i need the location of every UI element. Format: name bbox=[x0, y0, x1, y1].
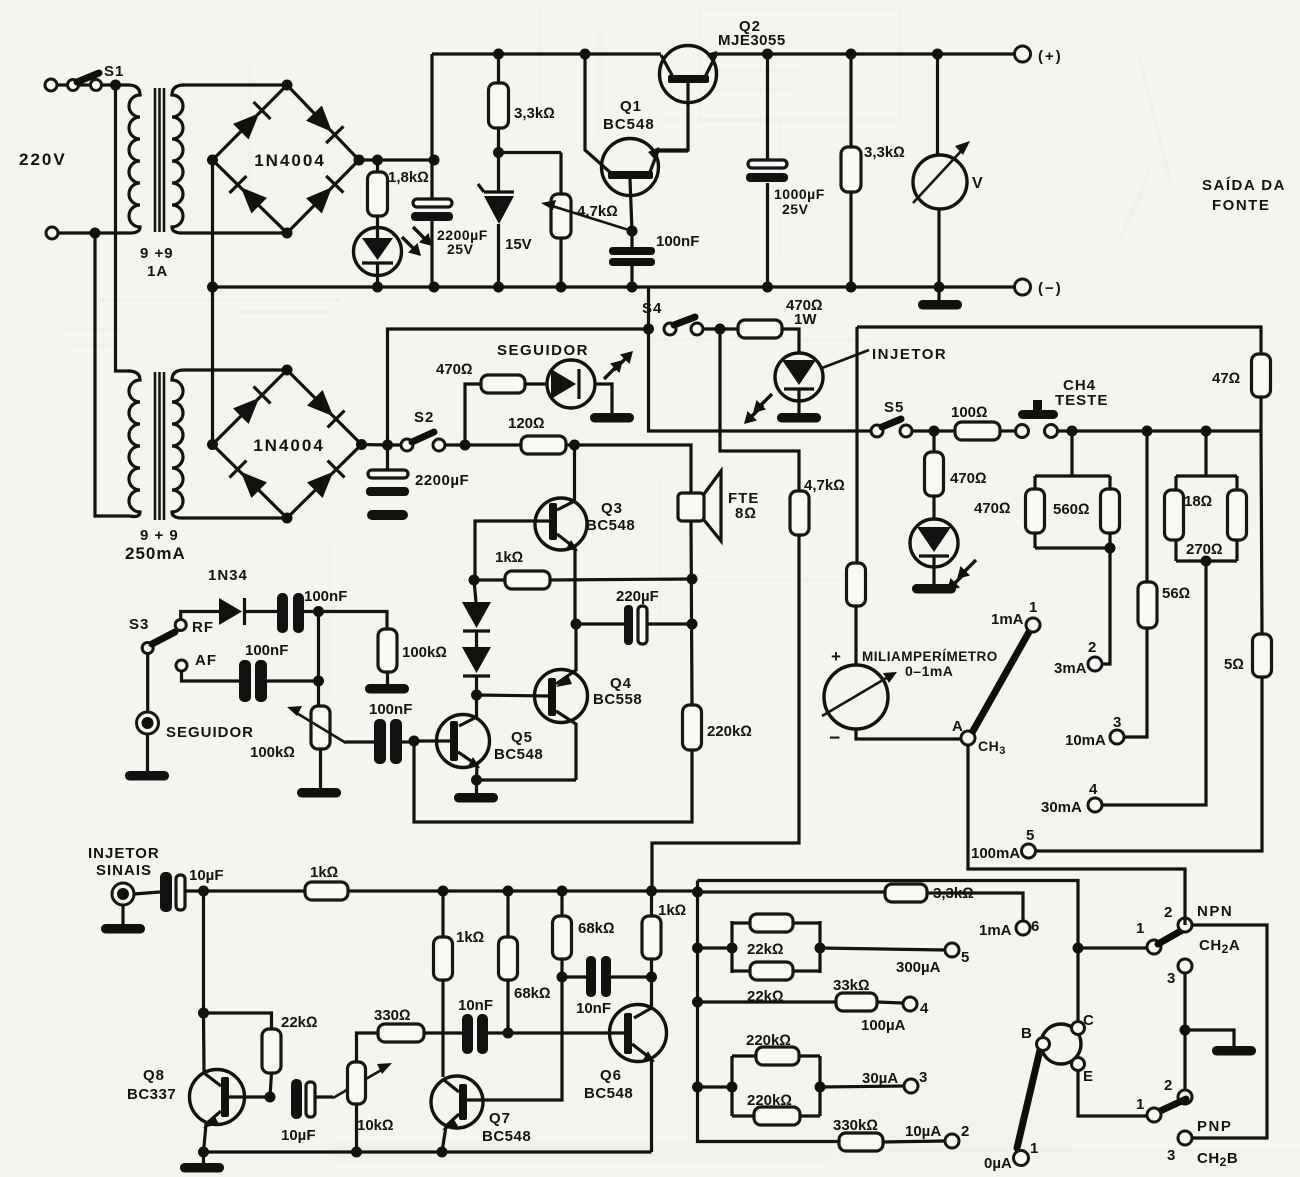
ground 100k RF bbox=[386, 672, 389, 684]
node shunt B bbox=[1142, 426, 1153, 437]
node Q8 collector bbox=[198, 1008, 209, 1019]
lever CH2A bbox=[1158, 928, 1186, 944]
svg-text:5Ω: 5Ω bbox=[1224, 656, 1244, 673]
diode B2 bottom-right bbox=[306, 460, 344, 498]
svg-text:BC548: BC548 bbox=[603, 116, 655, 133]
resistor 470R shunt bbox=[1026, 489, 1045, 533]
contact CH2A 2 NPN bbox=[1178, 918, 1192, 932]
svg-text:FONTE: FONTE bbox=[1212, 197, 1270, 214]
ground injetor rail bbox=[202, 1152, 205, 1163]
wire S4 branch riser bbox=[388, 329, 649, 445]
svg-text:2: 2 bbox=[1164, 1077, 1172, 1094]
resistor 5R chain bbox=[1261, 431, 1262, 634]
wire B2 right node to S2 bbox=[362, 443, 403, 447]
transistor Q4 BC558 bbox=[535, 670, 588, 723]
node Q6 collector bbox=[650, 959, 653, 977]
svg-text:V: V bbox=[972, 175, 983, 192]
node shunt A bbox=[1067, 426, 1078, 437]
wire injetor node down to 4,7k bbox=[720, 329, 799, 491]
capacitor 2200uF filter2 bbox=[386, 445, 389, 470]
svg-text:INJETOR: INJETOR bbox=[88, 845, 160, 862]
wire to 10uA contact bbox=[883, 1141, 945, 1142]
LED1 bbox=[354, 228, 402, 276]
resistor 68k first bbox=[506, 891, 509, 937]
wire to 30mA contact bbox=[1102, 561, 1206, 805]
svg-text:CH2A: CH2A bbox=[1199, 937, 1240, 956]
wire NPN2 to PNP3 bracket bbox=[1192, 925, 1267, 1138]
resistor 270R bbox=[1228, 490, 1247, 540]
svg-text:B: B bbox=[1021, 1025, 1032, 1042]
svg-text:SAÍDA DA: SAÍDA DA bbox=[1202, 177, 1286, 194]
svg-text:30µA: 30µA bbox=[862, 1070, 898, 1087]
svg-text:1kΩ: 1kΩ bbox=[310, 864, 338, 881]
transistor Q5 BC548 bbox=[459, 695, 477, 726]
resistor 22k a bbox=[750, 914, 793, 932]
wire speaker bottom bbox=[691, 521, 692, 705]
wire pot bottom to rail bbox=[355, 1104, 358, 1152]
svg-text:0µA: 0µA bbox=[984, 1155, 1012, 1172]
svg-text:PNP: PNP bbox=[1197, 1118, 1232, 1135]
bridge B2 node bottom bbox=[282, 513, 293, 524]
wire B1 right node out bbox=[359, 158, 434, 161]
svg-text:1kΩ: 1kΩ bbox=[456, 929, 484, 946]
svg-text:470Ω: 470Ω bbox=[950, 470, 987, 487]
jack injetor sinais bbox=[112, 883, 134, 905]
svg-text:A: A bbox=[952, 718, 963, 735]
wire S3 pivot to jack bbox=[146, 653, 149, 713]
wire to ground tap bbox=[1185, 1030, 1234, 1046]
node CH2A in bbox=[1073, 943, 1084, 954]
transformer T1 primary coil bbox=[128, 85, 140, 233]
contact 0uA 1 bbox=[1014, 1151, 1029, 1166]
svg-text:22kΩ: 22kΩ bbox=[281, 1014, 318, 1031]
shunt pair 18R/270R bracket bbox=[1176, 431, 1237, 561]
wire pot top to 330R bbox=[357, 1033, 379, 1062]
svg-text:100nF: 100nF bbox=[369, 701, 412, 718]
svg-text:250mA: 250mA bbox=[125, 544, 186, 563]
svg-text:560Ω: 560Ω bbox=[1053, 501, 1090, 518]
svg-text:S5: S5 bbox=[884, 399, 904, 416]
svg-text:Q4: Q4 bbox=[610, 675, 632, 692]
bridge B1 node left bbox=[207, 155, 218, 166]
svg-text:4,7kΩ: 4,7kΩ bbox=[577, 203, 618, 220]
svg-text:MILIAMPERÍMETRO: MILIAMPERÍMETRO bbox=[862, 649, 998, 664]
svg-text:BC337: BC337 bbox=[127, 1086, 176, 1103]
wire top box bbox=[857, 327, 1261, 354]
node AF junction bbox=[313, 676, 324, 687]
svg-text:10mA: 10mA bbox=[1065, 732, 1106, 749]
svg-text:Q5: Q5 bbox=[511, 729, 533, 746]
wire to 100mA contact bbox=[1036, 677, 1262, 851]
node 3mA tap bbox=[1105, 543, 1116, 554]
wire S4 feed from rail bbox=[647, 287, 650, 329]
node shunt C bbox=[1201, 426, 1212, 437]
svg-text:270Ω: 270Ω bbox=[1186, 541, 1223, 558]
potentiometer 4,7k bbox=[559, 153, 562, 288]
svg-text:10nF: 10nF bbox=[576, 1000, 611, 1017]
resistor 220k b bbox=[754, 1107, 800, 1125]
svg-text:25V: 25V bbox=[447, 241, 474, 257]
resistor 3,3k bbox=[497, 54, 500, 153]
LED seguidor light arrows bbox=[614, 351, 633, 370]
node Q4 base bbox=[471, 690, 482, 701]
bottom rail injetor bbox=[204, 1150, 652, 1153]
node 30mA tap bbox=[1201, 556, 1212, 567]
lever CH2B bbox=[1158, 1099, 1186, 1112]
wire zener node to pot top bbox=[499, 151, 562, 154]
diode B2 bottom-left bbox=[229, 460, 267, 498]
wire riser to 470R seguidor bbox=[465, 384, 481, 445]
LED1 light arrows bbox=[402, 237, 421, 256]
bridge B1 node right bbox=[354, 155, 365, 166]
svg-text:1mA: 1mA bbox=[979, 922, 1012, 939]
svg-text:+: + bbox=[831, 647, 841, 666]
capacitor 100nF AF bbox=[239, 660, 251, 702]
svg-text:10kΩ: 10kΩ bbox=[357, 1117, 394, 1134]
wire T1 secondary top to bridge bbox=[182, 83, 287, 86]
capacitor 10uF Q8 bbox=[291, 1079, 302, 1119]
svg-text:470Ω: 470Ω bbox=[974, 500, 1011, 517]
transformer T2 core bbox=[155, 372, 164, 520]
wire LED seguidor to ground bbox=[595, 384, 612, 413]
svg-text:25V: 25V bbox=[782, 201, 809, 217]
svg-text:Q8: Q8 bbox=[143, 1067, 165, 1084]
svg-text:10µF: 10µF bbox=[189, 867, 224, 884]
terminal 220V bottom bbox=[46, 227, 58, 239]
jack SEGUIDOR bbox=[137, 712, 159, 734]
svg-text:1kΩ: 1kΩ bbox=[658, 902, 686, 919]
svg-text:3,3kΩ: 3,3kΩ bbox=[514, 105, 555, 122]
rail minus bbox=[213, 285, 1015, 288]
svg-text:8Ω: 8Ω bbox=[735, 505, 757, 522]
capacitor 220uF bbox=[576, 622, 692, 625]
bridge B2 node top bbox=[282, 365, 293, 376]
contact CH2B 2 bbox=[1178, 1090, 1192, 1104]
svg-text:BC548: BC548 bbox=[584, 1085, 633, 1102]
svg-text:Q6: Q6 bbox=[600, 1067, 622, 1084]
svg-text:1W: 1W bbox=[794, 311, 817, 328]
wire CH2A contact1 bbox=[1078, 946, 1147, 949]
wire S4 to 470R 1W bbox=[703, 327, 738, 330]
transistor Q2 MJE3055 bbox=[660, 46, 717, 103]
node 2200uF top bbox=[429, 155, 440, 166]
wire long S4 to S5 bbox=[649, 329, 871, 431]
svg-text:3: 3 bbox=[1113, 714, 1121, 731]
resistor 330R bbox=[378, 1024, 424, 1042]
svg-text:3: 3 bbox=[1167, 970, 1175, 987]
resistor 120R bbox=[521, 436, 566, 454]
svg-text:2: 2 bbox=[961, 1123, 969, 1140]
svg-text:1: 1 bbox=[1136, 1096, 1144, 1113]
capacitor 10nF Q6 fb bbox=[562, 975, 652, 978]
contact CH2B 3 PNP bbox=[1178, 1131, 1192, 1145]
wire CH4 to shunt bus bbox=[1058, 429, 1261, 432]
svg-text:2: 2 bbox=[1164, 904, 1172, 921]
svg-text:BC548: BC548 bbox=[586, 517, 635, 534]
contact AF bbox=[176, 660, 187, 671]
wire 1k to Q7 collector bbox=[441, 980, 444, 1077]
wire 220V bottom bbox=[58, 231, 130, 234]
ground pot 100k bbox=[319, 749, 322, 788]
wire 330R to 10nF bbox=[424, 1031, 462, 1034]
svg-text:E: E bbox=[1083, 1068, 1093, 1085]
wire 22k to base node bbox=[270, 1073, 272, 1097]
svg-text:S2: S2 bbox=[414, 409, 434, 426]
wire T1 secondary bottom to bridge bbox=[180, 231, 287, 234]
node Q5 emitter bbox=[471, 775, 482, 786]
contact 30uA 3 bbox=[904, 1079, 918, 1093]
wire Q8 collector riser bbox=[202, 891, 205, 1013]
transistor Q8 BC337 bbox=[190, 1070, 245, 1125]
transformer T1 core bbox=[155, 88, 164, 232]
potentiometer 100k bbox=[311, 706, 330, 749]
svg-text:1N4004: 1N4004 bbox=[254, 151, 326, 170]
node 220uF left bbox=[571, 619, 582, 630]
wire top rail left drop bbox=[430, 54, 433, 199]
wire 1N34 to cap bbox=[245, 610, 278, 613]
resistor 3,3k base bbox=[698, 892, 1024, 921]
milliammeter bbox=[824, 665, 888, 729]
LED teste bbox=[932, 496, 935, 519]
resistor 470R 1W bbox=[738, 320, 782, 338]
transistor Q6 BC548 bbox=[634, 977, 652, 1018]
svg-text:330Ω: 330Ω bbox=[374, 1007, 411, 1024]
contact A CH3 bbox=[961, 731, 975, 745]
svg-text:Q3: Q3 bbox=[601, 500, 623, 517]
diode B2 top-right bbox=[306, 389, 344, 427]
LED seguidor bbox=[547, 360, 595, 408]
contact CH2A 1 bbox=[1147, 940, 1161, 954]
bridge B1 node bottom bbox=[282, 228, 293, 239]
bridge rectifier B2 diamond bbox=[213, 370, 362, 518]
contact 300uA 5 bbox=[945, 943, 959, 957]
contact E bbox=[1072, 1058, 1085, 1071]
resistor 47R bbox=[1252, 354, 1271, 397]
top rail plus bbox=[432, 52, 1014, 55]
node zener top bbox=[493, 147, 504, 158]
contact 30mA 4 bbox=[1088, 798, 1102, 812]
diode B1 bottom-right bbox=[305, 176, 343, 214]
wire CH2A3 to PNP2 bbox=[1183, 973, 1186, 1090]
svg-text:C: C bbox=[1083, 1012, 1094, 1029]
transistor Q1 BC548 bbox=[585, 54, 612, 174]
node 1.8k top bbox=[372, 155, 383, 166]
svg-text:100mA: 100mA bbox=[971, 845, 1020, 862]
capacitor 1000uF 25V bbox=[766, 54, 769, 287]
svg-text:15V: 15V bbox=[505, 236, 532, 253]
svg-text:SINAIS: SINAIS bbox=[96, 862, 152, 879]
wire B1 left node down to B2 bbox=[211, 160, 214, 445]
resistor 22k b bbox=[750, 962, 793, 980]
lever CH2 B to 0uA bbox=[1017, 1050, 1040, 1148]
svg-text:3: 3 bbox=[919, 1069, 927, 1086]
svg-text:1N34: 1N34 bbox=[208, 567, 248, 584]
svg-text:Q1: Q1 bbox=[620, 98, 642, 115]
svg-text:33kΩ: 33kΩ bbox=[833, 977, 870, 994]
svg-text:TESTE: TESTE bbox=[1055, 392, 1108, 409]
contact C bbox=[1072, 1022, 1085, 1035]
capacitor 100nF RF bbox=[277, 593, 288, 633]
node 220V bottom bbox=[90, 228, 101, 239]
resistor 18R bbox=[1165, 490, 1184, 540]
svg-text:S4: S4 bbox=[642, 300, 662, 317]
wire Q4 base bbox=[477, 695, 549, 696]
wire NPN2 riser bbox=[1183, 918, 1186, 925]
wire cap AF to node bbox=[267, 679, 319, 682]
resistor 100k RF bbox=[378, 629, 397, 672]
resistor 4,7k amp bbox=[790, 491, 809, 535]
svg-text:3,3kΩ: 3,3kΩ bbox=[864, 144, 905, 161]
resistor meter series bbox=[847, 563, 866, 606]
svg-text:3mA: 3mA bbox=[1054, 660, 1087, 677]
svg-text:2200µF: 2200µF bbox=[415, 472, 469, 489]
svg-text:9 + 9: 9 + 9 bbox=[140, 527, 179, 544]
zener 15V bbox=[497, 153, 500, 288]
wire T2 secondary top to bridge2 bbox=[184, 368, 287, 371]
wire meter column bbox=[855, 327, 858, 563]
contact CH2B 1 bbox=[1147, 1108, 1161, 1122]
svg-text:S3: S3 bbox=[129, 616, 149, 633]
svg-text:68kΩ: 68kΩ bbox=[578, 920, 615, 937]
resistor 1k input bbox=[305, 882, 348, 900]
svg-text:BC558: BC558 bbox=[593, 691, 642, 708]
resistor 1,8k bbox=[376, 160, 379, 228]
bridge B2 node right bbox=[356, 439, 367, 450]
contact 1mA 1 bbox=[1026, 618, 1040, 632]
transformer T2 primary coil bbox=[128, 371, 140, 517]
wire 470R to LED injetor bbox=[782, 329, 799, 354]
diode B1 top-right bbox=[305, 105, 343, 143]
svg-text:4: 4 bbox=[1089, 781, 1098, 798]
svg-text:68kΩ: 68kΩ bbox=[514, 985, 551, 1002]
pushbutton CH4 TESTE bbox=[1000, 429, 1015, 432]
wire to 3mA contact bbox=[1102, 548, 1110, 664]
contact 100mA 5 bbox=[1022, 844, 1036, 858]
wire base network column bbox=[698, 881, 840, 1142]
resistor 22k bbox=[262, 1029, 281, 1073]
transformer T2 secondary coil bbox=[172, 370, 184, 518]
Q1 base node bbox=[630, 179, 632, 247]
switch S1 bbox=[68, 80, 79, 91]
svg-text:−: − bbox=[829, 728, 840, 749]
svg-text:1N4004: 1N4004 bbox=[253, 436, 325, 455]
svg-text:AF: AF bbox=[195, 652, 217, 669]
svg-text:470Ω: 470Ω bbox=[436, 361, 473, 378]
svg-text:1: 1 bbox=[1136, 920, 1144, 937]
svg-text:MJE3055: MJE3055 bbox=[718, 32, 786, 49]
svg-text:CH2B: CH2B bbox=[1197, 1150, 1238, 1169]
wire node to 22k bbox=[204, 1013, 272, 1029]
svg-text:300µA: 300µA bbox=[896, 959, 941, 976]
contact 10mA 3 bbox=[1110, 730, 1124, 744]
wire cap to pot wiper bbox=[315, 1095, 333, 1098]
rail injetor top bbox=[185, 889, 698, 892]
resistor 100R bbox=[955, 422, 1000, 440]
potentiometer 10k bbox=[333, 1069, 383, 1098]
node ground tap bbox=[1180, 1025, 1191, 1036]
node Q3 collector bbox=[569, 440, 580, 451]
wire 220V top to S1 bbox=[57, 83, 128, 86]
svg-text:INJETOR: INJETOR bbox=[872, 346, 947, 363]
capacitor 2200uF 25V bbox=[413, 199, 452, 207]
transistor Q7 BC548 bbox=[431, 1076, 483, 1128]
diode 1N34 bbox=[219, 598, 242, 625]
node RF junction bbox=[313, 606, 324, 617]
wire 68k to node bbox=[506, 980, 509, 1033]
svg-text:6: 6 bbox=[1031, 918, 1039, 935]
resistor 470R seguidor bbox=[481, 375, 525, 393]
wire AF to cap bbox=[182, 671, 240, 681]
svg-text:220µF: 220µF bbox=[616, 588, 659, 605]
node injetor branch bbox=[715, 324, 726, 335]
LED injetor bbox=[775, 353, 823, 401]
wire Q3 base bbox=[475, 521, 549, 580]
switch S2 bbox=[401, 439, 413, 451]
svg-text:220V: 220V bbox=[19, 150, 67, 169]
wire 68k2 to Q7 base bbox=[467, 959, 562, 1100]
svg-text:3: 3 bbox=[1167, 1147, 1175, 1164]
svg-text:100kΩ: 100kΩ bbox=[402, 644, 447, 661]
resistor 3,3k output bbox=[849, 54, 852, 287]
svg-text:0–1mA: 0–1mA bbox=[905, 663, 953, 679]
wire S5 to 100R bbox=[912, 429, 955, 432]
diode D2 amp bbox=[475, 631, 478, 647]
svg-text:(−): (−) bbox=[1038, 280, 1063, 297]
svg-text:4,7kΩ: 4,7kΩ bbox=[804, 477, 845, 494]
diode B2 top-left bbox=[232, 386, 270, 424]
svg-text:220kΩ: 220kΩ bbox=[746, 1032, 791, 1049]
contact 3mA 2 bbox=[1088, 657, 1102, 671]
resistor 1k Q6 bbox=[650, 891, 653, 916]
svg-text:10nF: 10nF bbox=[458, 997, 493, 1014]
node base network top bbox=[692, 887, 703, 898]
bridge B1 node top bbox=[282, 80, 293, 91]
contact RF bbox=[175, 620, 186, 631]
wire to 300uA contact bbox=[820, 948, 945, 950]
LED injetor light arrows bbox=[753, 394, 772, 413]
svg-text:(+): (+) bbox=[1038, 48, 1063, 65]
svg-text:120Ω: 120Ω bbox=[508, 415, 545, 432]
wire to 10mA contact bbox=[1124, 628, 1147, 737]
svg-text:47Ω: 47Ω bbox=[1212, 370, 1240, 387]
ground LED seguidor bbox=[590, 413, 634, 423]
wire T2 secondary bottom to bridge2 bbox=[182, 516, 287, 519]
svg-text:5: 5 bbox=[961, 949, 969, 966]
ground LED injetor bbox=[777, 413, 821, 423]
svg-text:100nF: 100nF bbox=[245, 642, 288, 659]
resistor 33k bbox=[698, 1002, 904, 1003]
label INJETOR with pointer bbox=[822, 350, 869, 368]
wire to T2 primary top bbox=[116, 85, 131, 371]
transistor Q3 BC548 bbox=[557, 445, 575, 510]
svg-text:22kΩ: 22kΩ bbox=[747, 941, 784, 958]
svg-text:1A: 1A bbox=[147, 263, 168, 280]
wire 470R to LED seguidor bbox=[525, 382, 548, 385]
node 2200uF2 top bbox=[382, 440, 393, 451]
svg-text:NPN: NPN bbox=[1197, 903, 1233, 920]
resistor 1k Q7 bbox=[441, 891, 444, 937]
svg-text:1000µF: 1000µF bbox=[774, 186, 825, 202]
ground Q5 bbox=[475, 780, 478, 793]
resistor 330k bbox=[839, 1133, 883, 1151]
svg-text:RF: RF bbox=[192, 619, 214, 636]
wire RF to 1N34 bbox=[181, 612, 219, 620]
terminal minus bbox=[1015, 279, 1031, 295]
svg-text:100µA: 100µA bbox=[861, 1017, 906, 1034]
bridge B2 node left bbox=[207, 439, 218, 450]
node 470R seguidor bbox=[460, 440, 471, 451]
svg-text:2: 2 bbox=[1088, 639, 1096, 656]
